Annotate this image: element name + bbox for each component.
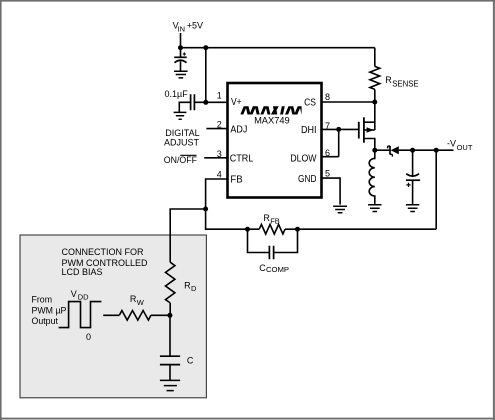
svg-text:+5V: +5V — [187, 20, 203, 30]
svg-text:7: 7 — [325, 121, 330, 131]
svg-text:FB: FB — [230, 175, 243, 186]
svg-text:V: V — [71, 289, 77, 299]
svg-text:DD: DD — [78, 292, 89, 301]
svg-text:V+: V+ — [231, 97, 242, 108]
svg-text:W: W — [137, 298, 145, 307]
svg-text:DHI: DHI — [301, 125, 317, 136]
svg-text:LCD BIAS: LCD BIAS — [62, 267, 103, 277]
svg-text:ADJ: ADJ — [230, 125, 247, 136]
svg-text:CS: CS — [304, 97, 316, 108]
svg-text:-V: -V — [447, 138, 456, 148]
svg-text:1: 1 — [217, 91, 222, 101]
svg-text:FB: FB — [270, 216, 280, 225]
svg-text:CTRL: CTRL — [230, 154, 254, 165]
svg-text:COMP: COMP — [266, 265, 289, 274]
svg-text:ON/OFF: ON/OFF — [164, 155, 198, 165]
svg-text:MAX749: MAX749 — [254, 115, 290, 125]
svg-text:3: 3 — [217, 149, 222, 159]
svg-text:0.1µF: 0.1µF — [165, 89, 189, 99]
svg-text:5: 5 — [325, 169, 330, 179]
svg-text:D: D — [191, 284, 197, 293]
svg-text:PWM µP: PWM µP — [32, 305, 67, 315]
svg-text:CONNECTION FOR: CONNECTION FOR — [62, 247, 144, 257]
svg-text:6: 6 — [325, 148, 330, 158]
svg-text:Output: Output — [32, 316, 59, 326]
svg-text:IN: IN — [178, 24, 186, 33]
svg-text:GND: GND — [298, 174, 317, 185]
svg-text:OUT: OUT — [457, 143, 473, 152]
svg-text:2: 2 — [217, 120, 222, 130]
svg-text:0: 0 — [86, 332, 91, 342]
svg-text:DLOW: DLOW — [290, 153, 317, 164]
svg-text:ADJUST: ADJUST — [164, 138, 200, 148]
svg-text:SENSE: SENSE — [392, 80, 418, 89]
svg-text:4: 4 — [217, 170, 222, 180]
svg-text:From: From — [32, 294, 53, 304]
svg-text:8: 8 — [325, 92, 330, 102]
svg-text:C: C — [187, 356, 194, 366]
